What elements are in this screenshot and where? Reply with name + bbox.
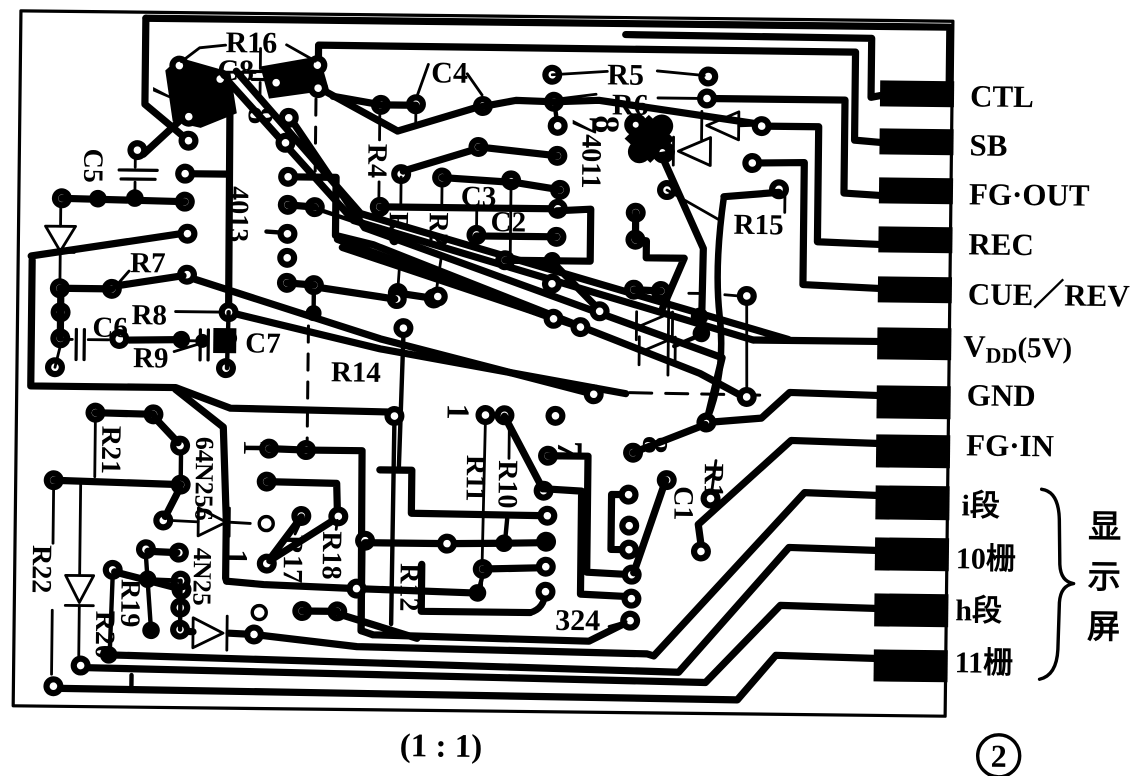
pad col p4 bbox=[622, 565, 642, 585]
wire row482 bbox=[54, 480, 181, 484]
svg-text:GND: GND bbox=[967, 377, 1036, 413]
svg-text:4011: 4011 bbox=[575, 134, 607, 189]
wire R11 leader bbox=[482, 421, 486, 589]
wire diag 181-165 bbox=[165, 488, 179, 516]
pad pad 660 bbox=[651, 281, 671, 301]
wire notch bbox=[129, 675, 134, 688]
pad pad 340b bbox=[328, 506, 348, 526]
wire C6 lead right bbox=[88, 338, 108, 341]
pad pad 359 bbox=[346, 579, 366, 599]
connector finger GND bbox=[876, 385, 950, 419]
pad Q2-3 bbox=[308, 78, 328, 98]
wire colA-B link1 bbox=[288, 205, 315, 207]
svg-text:1: 1 bbox=[219, 549, 255, 565]
wire col183 link bbox=[178, 581, 183, 630]
wire VDD feed bbox=[753, 340, 877, 341]
hole O2 bbox=[252, 605, 266, 619]
wire bundle P2d bbox=[341, 247, 581, 327]
wire 324 leader bbox=[609, 621, 626, 626]
svg-text:C1: C1 bbox=[667, 486, 698, 521]
pad R15 top pad bbox=[769, 179, 789, 199]
pad left mid a bbox=[175, 164, 195, 184]
diode D3a triangle bbox=[640, 312, 672, 340]
wire trace row511 bbox=[379, 470, 540, 516]
wire VD1 lead bottom bbox=[59, 252, 62, 281]
long curved trace bbox=[707, 197, 723, 419]
wire D3a bar bbox=[635, 312, 638, 340]
svg-text:8: 8 bbox=[587, 115, 627, 133]
wire C5 row trace bbox=[62, 198, 185, 201]
svg-text:C5: C5 bbox=[77, 148, 108, 183]
pad colA 7 bbox=[277, 273, 297, 293]
pad R21 b bbox=[170, 436, 190, 456]
wire VD3 stem top bbox=[80, 483, 81, 575]
svg-text:(1 : 1): (1 : 1) bbox=[400, 728, 483, 765]
wire trace row448 down bbox=[267, 449, 363, 631]
pad R15 body bottom bbox=[737, 387, 757, 407]
wire link to diode pair bbox=[674, 335, 699, 346]
junction dot C5 row d1 bbox=[89, 190, 107, 208]
wire link 181 bbox=[179, 452, 184, 478]
wire link rows bbox=[505, 517, 507, 541]
pad pad 182b bbox=[171, 475, 191, 495]
wire diag to 268 bbox=[268, 517, 302, 562]
junction dot colB 3 bbox=[306, 305, 322, 321]
svg-text:R21: R21 bbox=[95, 426, 127, 475]
wire R5 leader right bbox=[657, 71, 704, 76]
wire row3 link a bbox=[442, 178, 511, 183]
pad pad 55 bbox=[44, 470, 64, 490]
svg-text:8: 8 bbox=[241, 106, 281, 124]
wire C4 leader 1 bbox=[417, 64, 428, 96]
svg-text:C6: C6 bbox=[92, 312, 128, 344]
wire R4 leader top bbox=[378, 112, 381, 140]
wire diag to C4 pad bbox=[403, 148, 476, 172]
pad C5 top bbox=[127, 140, 147, 160]
pad bk B start bbox=[534, 481, 554, 501]
wire col114 link bbox=[110, 577, 113, 651]
wire bundle P1a to VDD bbox=[224, 80, 756, 340]
wire row414 bbox=[95, 413, 153, 415]
brace for display group bbox=[1040, 489, 1075, 679]
wire R4 leader bottom bbox=[377, 182, 380, 202]
wire C6 plate 1 bbox=[74, 329, 78, 359]
svg-text:R15: R15 bbox=[733, 209, 783, 242]
svg-text:R18: R18 bbox=[316, 531, 348, 580]
pad B2 ml bbox=[393, 318, 413, 338]
wire bundle P1b bbox=[233, 71, 791, 339]
wire T2 trace to SB bar bbox=[318, 45, 882, 142]
pad col p3 bbox=[619, 540, 639, 560]
pad mid pad A bbox=[177, 224, 197, 244]
pad Q1-1 bbox=[169, 55, 189, 75]
pad colA 3 bbox=[278, 167, 298, 187]
wire R7 body bbox=[116, 275, 183, 287]
wire R3 vert stub bbox=[399, 177, 402, 205]
wire D2 axis b bbox=[739, 125, 759, 126]
pad R6 right bbox=[697, 88, 717, 108]
wire col150 link bbox=[145, 555, 152, 630]
svg-text:R2: R2 bbox=[422, 212, 453, 247]
wire C7 lead left bbox=[186, 339, 196, 342]
pad FGIN pad bbox=[691, 541, 711, 561]
wire row564 bbox=[483, 567, 544, 570]
pad C3 top-l bbox=[468, 137, 488, 157]
pad pad 548c bbox=[535, 582, 555, 602]
wire link pad to 4013 net bbox=[185, 170, 227, 178]
wire R16 leader left bbox=[181, 45, 225, 62]
pad row1-a bbox=[371, 95, 391, 115]
svg-text:R5: R5 bbox=[607, 58, 644, 91]
wire C8 plate 2 bbox=[252, 78, 268, 81]
wire R6 leader right bbox=[658, 97, 700, 100]
connector finger FGIN bbox=[876, 434, 950, 468]
wire R15 body bbox=[746, 305, 748, 388]
svg-text:64N256: 64N256 bbox=[189, 437, 219, 521]
pad col p1 bbox=[618, 485, 638, 505]
wire colB stub bbox=[311, 291, 316, 311]
pad colB 2 bbox=[304, 275, 324, 295]
pad VD3 pad bbox=[71, 655, 91, 675]
pad pad 303 bbox=[291, 506, 311, 526]
wire stub to pad 286-233 bbox=[266, 232, 284, 233]
pad Q2-2 bbox=[307, 55, 327, 75]
connector finger VDD bbox=[877, 327, 951, 360]
pad mid pad d bbox=[590, 301, 610, 321]
wire C7 plate 1 bbox=[198, 330, 202, 360]
pad R7 right bbox=[177, 265, 197, 285]
pad R2 top bbox=[432, 167, 452, 187]
connector finger iseg bbox=[875, 485, 949, 520]
junction dot dot 112 bbox=[100, 646, 118, 664]
wire L trace C2 bbox=[421, 564, 531, 612]
wire VD2 stem bbox=[93, 419, 96, 477]
pad col183 c bbox=[170, 620, 190, 640]
wire trace 7-shape bbox=[637, 240, 685, 309]
wire R6 net to FG-OUT bar bbox=[706, 98, 881, 195]
pad bl a bbox=[136, 539, 156, 559]
wire C8 plate 1 bbox=[251, 70, 269, 73]
pad row1-b bbox=[406, 94, 426, 114]
pad col p6 bbox=[620, 611, 640, 631]
pad below Q1 bbox=[178, 131, 198, 151]
junction dot C5 row d2 bbox=[126, 189, 144, 207]
pad row481 l bbox=[257, 471, 277, 491]
diode D3b triangle bbox=[643, 337, 675, 365]
svg-text:C7: C7 bbox=[245, 327, 281, 359]
wire R22 lead bottom bbox=[50, 610, 54, 674]
pad pad 449 bbox=[437, 534, 457, 554]
pad pad 549-512 bbox=[537, 506, 557, 526]
svg-text:2: 2 bbox=[990, 738, 1006, 774]
svg-text:7: 7 bbox=[550, 441, 590, 459]
wire link pads 98-122 bbox=[555, 107, 557, 120]
wire T1 left drop to pad bbox=[145, 18, 190, 140]
svg-text:8: 8 bbox=[635, 436, 675, 454]
dashed line vertical left bbox=[314, 99, 318, 173]
wire 4N25-1 lead bbox=[171, 521, 198, 522]
wire rail Y2 stub to diode bbox=[180, 631, 193, 632]
wire C7 column link bbox=[227, 312, 229, 368]
connector finger CTL bbox=[880, 80, 954, 107]
wire R19 body bbox=[115, 572, 180, 589]
diode VD3 triangle bbox=[65, 575, 93, 602]
dashed line vertical mid bbox=[307, 326, 308, 453]
svg-text:C4: C4 bbox=[431, 56, 468, 89]
wire 4N25-1 bar bbox=[228, 508, 231, 536]
svg-text:R1: R1 bbox=[698, 463, 729, 498]
4N25-2 triangle bbox=[193, 618, 223, 648]
connector finger CUE bbox=[878, 276, 952, 303]
wire diag R10 bbox=[504, 416, 544, 488]
transistor blob Q1 footprint bbox=[165, 57, 238, 128]
svg-text:h段: h段 bbox=[955, 593, 1002, 628]
wire R9 leader right bbox=[174, 345, 196, 352]
pad row3 right bbox=[550, 180, 570, 200]
wire row610 bbox=[302, 607, 337, 615]
wire rail Y2 diode to pad bbox=[229, 633, 254, 634]
wire R5 leader left bbox=[552, 71, 607, 76]
svg-text:VDD(5V): VDD(5V) bbox=[963, 328, 1072, 368]
wire R2 vert stub bbox=[440, 185, 443, 207]
diode VD1 triangle bbox=[45, 226, 75, 251]
pad pad 340c bbox=[327, 601, 347, 621]
wire left col link bbox=[57, 288, 65, 338]
svg-text:11栅: 11栅 bbox=[955, 646, 1014, 680]
svg-text:FG·IN: FG·IN bbox=[966, 427, 1054, 463]
wire long row y205 bbox=[380, 207, 558, 209]
pad staircase end pad bbox=[384, 406, 404, 426]
wire C5 stem top bbox=[134, 156, 137, 167]
wire bundle B2 to dashed bbox=[228, 312, 627, 393]
wire thin diag 665 bbox=[667, 190, 721, 221]
wire bundle P2a to pad bbox=[287, 119, 724, 419]
wire 4N25-2 bar bbox=[225, 616, 228, 650]
wire row5 link bbox=[476, 232, 556, 240]
wire link 633-660 bbox=[634, 290, 661, 291]
wire colA-B link2 bbox=[287, 283, 314, 285]
wire FG-IN feed diagonal bbox=[698, 439, 876, 553]
wire R2 leader bottom bbox=[436, 257, 441, 294]
pad pad 665 bbox=[657, 180, 677, 200]
svg-text:R9: R9 bbox=[133, 342, 169, 374]
wire link 634 bbox=[632, 213, 640, 240]
wire trace 324 rail bbox=[361, 547, 631, 642]
connector finger hseg bbox=[874, 593, 948, 627]
junction dot dot 506 bbox=[495, 534, 513, 552]
wire GND feed from junction bbox=[706, 392, 876, 425]
svg-text:10栅: 10栅 bbox=[956, 542, 1016, 576]
arc to pad 548,588 bbox=[530, 592, 545, 613]
wire V trace bbox=[325, 91, 554, 133]
wire 4N25-2 lead2 bbox=[229, 633, 249, 636]
wire C4 leader 2 bbox=[467, 74, 482, 95]
pad 4N25-2 out pad bbox=[244, 624, 264, 644]
pad R5 right bbox=[698, 66, 718, 86]
wire L1 trace to CTL bar bbox=[625, 35, 882, 98]
junction dot big dot 548 bbox=[536, 532, 556, 552]
pad pad 634a bbox=[626, 203, 646, 223]
wire row7 link bbox=[398, 293, 434, 298]
pad B2 tl bbox=[387, 289, 407, 309]
IC 4011 pad cluster blob bbox=[624, 115, 675, 164]
svg-text:R17: R17 bbox=[277, 535, 309, 584]
pad left col d bbox=[45, 357, 65, 377]
wire R17 leader bbox=[295, 523, 300, 534]
pad R3 top bbox=[391, 164, 411, 184]
wire R22 lead top bbox=[52, 487, 55, 543]
wire diag from 268 up bbox=[270, 522, 330, 562]
pad col183 a bbox=[170, 571, 190, 591]
pad Q2-1 bbox=[266, 73, 286, 93]
junction dot row6 dot bbox=[543, 252, 561, 270]
pad R10 top bbox=[494, 405, 514, 425]
svg-text:SB: SB bbox=[969, 127, 1007, 162]
pad left col c bbox=[50, 328, 70, 348]
pad pad 485 bbox=[473, 559, 493, 579]
wire bracket B bbox=[541, 489, 631, 597]
wire D3b bar bbox=[638, 337, 641, 365]
wire row1 link bbox=[333, 96, 416, 105]
pad colA 6 bbox=[277, 248, 297, 268]
pad row1-d bbox=[544, 92, 564, 112]
pad pad 165 bbox=[153, 510, 173, 530]
wire C6 plate 2 bbox=[82, 330, 86, 360]
pad R2 bottom bbox=[424, 288, 444, 308]
svg-text:R22: R22 bbox=[25, 545, 57, 594]
connector finger REC bbox=[878, 226, 952, 253]
wire long vertical net x403 bbox=[399, 338, 403, 467]
connector finger g11 bbox=[874, 649, 948, 682]
wire C5 plate 2 bbox=[121, 177, 155, 181]
wire bundle P2b to pad bbox=[286, 177, 748, 397]
pad R4 bottom bbox=[370, 197, 390, 217]
svg-text:CUE／REV: CUE／REV bbox=[968, 276, 1131, 313]
wire T1 top trace to CTL via right edge bbox=[145, 18, 950, 92]
junction dot C7 dot bbox=[195, 334, 209, 348]
pad C7 bottom bbox=[216, 358, 236, 378]
svg-text:R10: R10 bbox=[491, 460, 523, 509]
wire tick bbox=[689, 292, 701, 295]
pad R11 top bbox=[475, 405, 495, 425]
pad R15 body top bbox=[737, 286, 757, 306]
connector finger SB bbox=[879, 128, 953, 155]
wire diagonal to pad A bbox=[31, 231, 187, 258]
wire bl link bbox=[148, 551, 177, 552]
wire colB diag1 bbox=[318, 209, 352, 220]
pad row3 mid bbox=[501, 170, 521, 190]
svg-text:C2: C2 bbox=[490, 206, 526, 238]
svg-text:FG·OUT: FG·OUT bbox=[969, 176, 1090, 212]
pad pad 633 bbox=[624, 280, 644, 300]
wire C8 stem a bbox=[259, 49, 262, 69]
wire row3 link b bbox=[514, 182, 560, 190]
pad R22 pad bbox=[43, 676, 63, 696]
wire rail Y3 to 10-grid bar bbox=[109, 540, 875, 675]
junction dot C7 mid bbox=[219, 329, 237, 347]
pad bk A start bbox=[538, 446, 558, 466]
wire vertical to rail Y1 bbox=[174, 390, 229, 582]
pad seven pad bbox=[545, 406, 565, 426]
svg-text:C8: C8 bbox=[217, 54, 254, 87]
wire diag to Y2 bbox=[340, 614, 417, 638]
pad mid pad c bbox=[570, 317, 590, 337]
wire 4013 net vertical bbox=[228, 95, 231, 312]
wire C5 pad diag to Q1 bbox=[143, 121, 178, 154]
wire R3 leader bottom bbox=[398, 256, 400, 289]
svg-text:1: 1 bbox=[440, 404, 476, 420]
pad mid pad e bbox=[584, 384, 604, 404]
figure number circled 2 bbox=[977, 735, 1019, 776]
pad col p5 bbox=[621, 589, 641, 609]
wire R7 row bbox=[60, 285, 112, 293]
pad R21 a bbox=[143, 404, 163, 424]
junction dot dot 154 bbox=[142, 621, 160, 639]
wire diag C1a bbox=[634, 480, 666, 573]
pad row448 r bbox=[296, 440, 316, 460]
wire D2 axis a bbox=[652, 151, 673, 155]
wire rail Y2 to i-seg bar bbox=[254, 486, 876, 658]
wire C7 plate 2 bbox=[206, 330, 210, 360]
svg-text:R12: R12 bbox=[393, 563, 425, 612]
wire C5 stem bottom bbox=[133, 182, 136, 196]
wire R21 body bbox=[155, 418, 178, 442]
pad bl b bbox=[169, 543, 189, 563]
svg-text:REC: REC bbox=[968, 226, 1034, 262]
pad pad 634b bbox=[625, 230, 645, 250]
pad mid pad f bbox=[542, 274, 562, 294]
svg-text:R14: R14 bbox=[331, 356, 381, 389]
junction dot R9 junction bbox=[172, 331, 190, 349]
svg-text:7: 7 bbox=[145, 83, 185, 101]
svg-text:R11: R11 bbox=[459, 455, 491, 502]
pad left col a bbox=[50, 278, 70, 298]
wire diag to pad 599 bbox=[554, 264, 598, 308]
wire stub R4 pad bbox=[414, 110, 417, 124]
pad pad 367 bbox=[355, 531, 375, 551]
wire CUE feed bbox=[751, 162, 880, 288]
wire row6 link bbox=[505, 257, 549, 265]
junction dot dot 480 bbox=[469, 584, 487, 602]
capacitor C7 dark blob bbox=[213, 328, 236, 353]
svg-text:R4: R4 bbox=[361, 144, 392, 179]
pad VD2 top bbox=[85, 403, 105, 423]
pad CUE pad bbox=[742, 153, 762, 173]
wire diag to GND pad bbox=[633, 424, 705, 454]
svg-text:屏: 屏 bbox=[1087, 610, 1120, 646]
wire curve link to pad bbox=[725, 295, 738, 296]
pad row448 l bbox=[259, 439, 279, 459]
wire C8 leader bbox=[225, 71, 255, 74]
wire R9 row bbox=[129, 339, 181, 341]
pad C1 pad a bbox=[657, 470, 677, 490]
4N25-1 triangle bbox=[198, 508, 226, 536]
pad colA 1 bbox=[279, 108, 299, 128]
wire VD3 bar bbox=[65, 604, 93, 607]
pad Q1-2 bbox=[210, 69, 230, 89]
wire C2 stem bbox=[509, 188, 513, 255]
svg-text:1: 1 bbox=[237, 439, 273, 455]
pad C6 right pad bbox=[109, 329, 129, 349]
wire rail Y5 to 11-grid bar bbox=[53, 647, 873, 701]
wire bracket C bbox=[611, 494, 630, 549]
pad C5 row left bbox=[52, 188, 72, 208]
wire row541 bbox=[365, 541, 543, 545]
svg-text:4N25: 4N25 bbox=[187, 548, 217, 606]
board outline frame bbox=[13, 11, 953, 716]
junction dot dot 150 bbox=[139, 570, 157, 588]
pad pad 548b bbox=[536, 557, 556, 577]
